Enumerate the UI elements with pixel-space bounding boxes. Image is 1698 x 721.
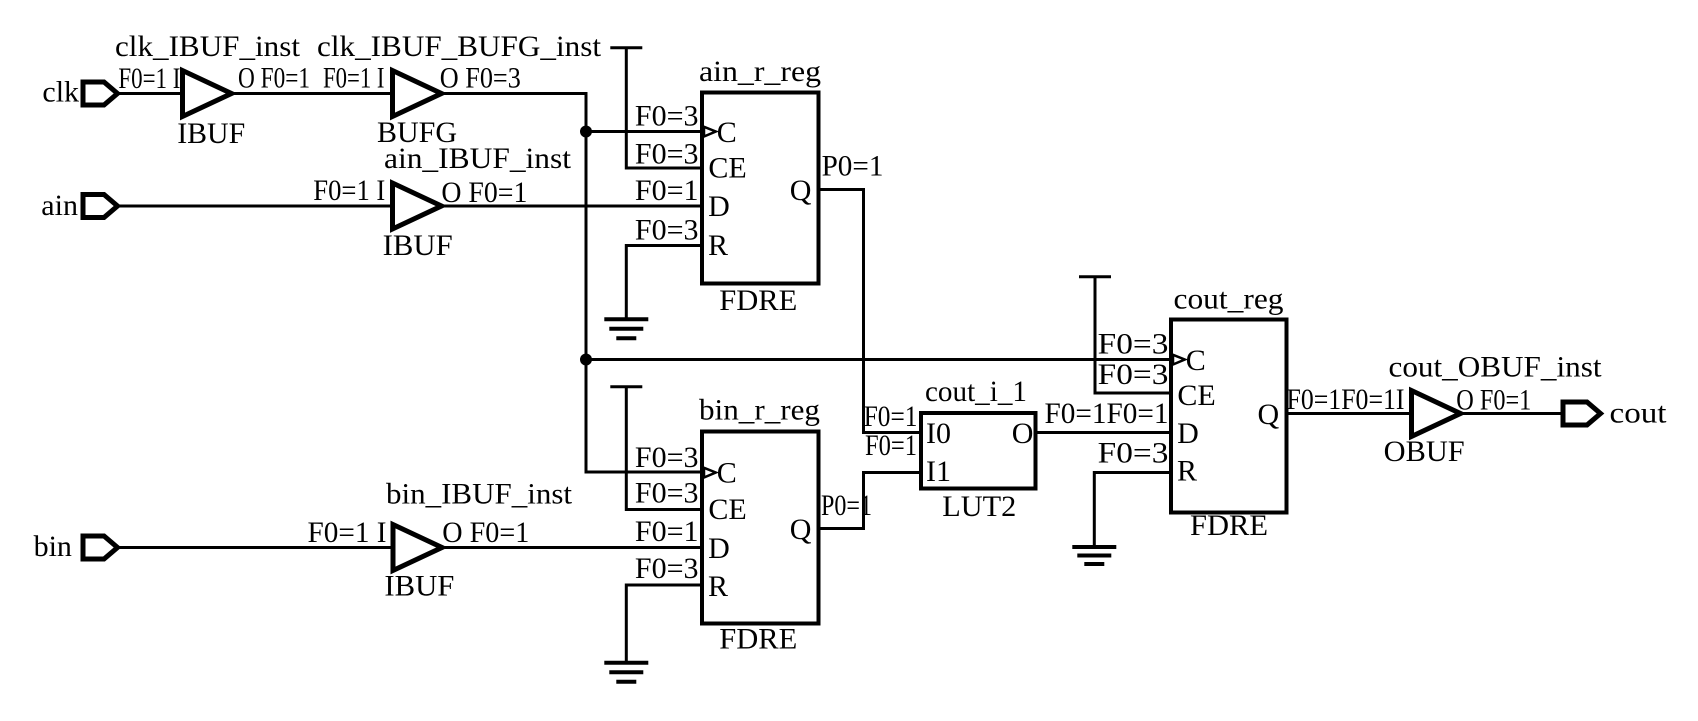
svg-text:D: D <box>708 532 730 565</box>
svg-text:F0=1: F0=1 <box>865 429 917 462</box>
svg-text:R: R <box>708 229 728 262</box>
svg-text:cout_i_1: cout_i_1 <box>925 375 1027 408</box>
svg-text:bin: bin <box>34 530 72 563</box>
svg-text:F0=1: F0=1 <box>635 515 699 548</box>
svg-text:F0=3: F0=3 <box>635 100 699 133</box>
svg-text:I1: I1 <box>926 455 951 488</box>
svg-text:bin_IBUF_inst: bin_IBUF_inst <box>386 478 573 511</box>
svg-text:ain: ain <box>41 189 78 222</box>
svg-text:clk_IBUF_BUFG_inst: clk_IBUF_BUFG_inst <box>317 30 602 63</box>
svg-text:LUT2: LUT2 <box>942 490 1016 523</box>
svg-text:F0=1F0=1: F0=1F0=1 <box>1045 397 1169 430</box>
svg-text:O: O <box>1012 417 1034 450</box>
svg-text:P0=1: P0=1 <box>822 150 884 183</box>
svg-text:CE: CE <box>708 152 746 185</box>
svg-text:C: C <box>1186 344 1206 377</box>
svg-text:R: R <box>1177 455 1197 488</box>
svg-text:cout: cout <box>1610 397 1668 430</box>
svg-text:CE: CE <box>708 493 746 526</box>
svg-text:C: C <box>717 116 737 149</box>
svg-text:F0=3: F0=3 <box>635 477 699 510</box>
svg-text:D: D <box>708 190 730 223</box>
svg-text:IBUF: IBUF <box>384 570 454 603</box>
svg-text:clk: clk <box>42 76 79 109</box>
svg-text:cout_reg: cout_reg <box>1174 283 1284 316</box>
svg-text:F0=1: F0=1 <box>635 174 699 207</box>
svg-text:O F0=1: O F0=1 <box>441 176 527 209</box>
svg-text:bin_r_reg: bin_r_reg <box>699 393 820 426</box>
svg-text:IBUF: IBUF <box>177 117 245 150</box>
svg-text:FDRE: FDRE <box>719 284 797 317</box>
svg-text:P0=1: P0=1 <box>821 489 872 522</box>
svg-text:I0: I0 <box>926 417 951 450</box>
svg-text:FDRE: FDRE <box>1190 509 1268 542</box>
svg-text:F0=1 I: F0=1 I <box>323 62 385 95</box>
svg-text:Q: Q <box>1258 398 1280 431</box>
svg-text:cout_OBUF_inst: cout_OBUF_inst <box>1389 351 1603 384</box>
svg-text:F0=1 I: F0=1 I <box>313 174 385 207</box>
svg-text:Q: Q <box>790 174 812 207</box>
svg-text:O F0=1: O F0=1 <box>238 62 310 95</box>
svg-text:R: R <box>708 570 728 603</box>
svg-text:O F0=1: O F0=1 <box>442 516 529 549</box>
svg-text:F0=3: F0=3 <box>635 441 699 474</box>
svg-text:IBUF: IBUF <box>383 229 453 262</box>
svg-text:F0=3: F0=3 <box>635 552 699 585</box>
svg-text:F0=3: F0=3 <box>1098 328 1169 361</box>
svg-text:CE: CE <box>1177 379 1215 412</box>
svg-text:OBUF: OBUF <box>1384 435 1465 468</box>
svg-text:O F0=1: O F0=1 <box>1456 384 1531 417</box>
svg-text:F0=3: F0=3 <box>1098 437 1169 470</box>
svg-text:clk_IBUF_inst: clk_IBUF_inst <box>115 30 301 63</box>
svg-text:FDRE: FDRE <box>719 622 797 655</box>
svg-text:F0=1 I: F0=1 I <box>118 62 180 95</box>
svg-text:F0=1F0=1I: F0=1F0=1I <box>1287 383 1405 416</box>
svg-text:F0=3: F0=3 <box>1098 358 1169 391</box>
svg-text:D: D <box>1177 417 1199 450</box>
svg-text:BUFG: BUFG <box>377 116 457 149</box>
svg-text:F0=3: F0=3 <box>635 214 699 247</box>
svg-text:ain_r_reg: ain_r_reg <box>699 55 821 88</box>
svg-text:Q: Q <box>790 513 812 546</box>
svg-text:C: C <box>717 457 737 490</box>
svg-text:F0=1 I: F0=1 I <box>308 516 387 549</box>
svg-text:F0=3: F0=3 <box>635 138 699 171</box>
svg-text:O F0=3: O F0=3 <box>440 62 521 95</box>
